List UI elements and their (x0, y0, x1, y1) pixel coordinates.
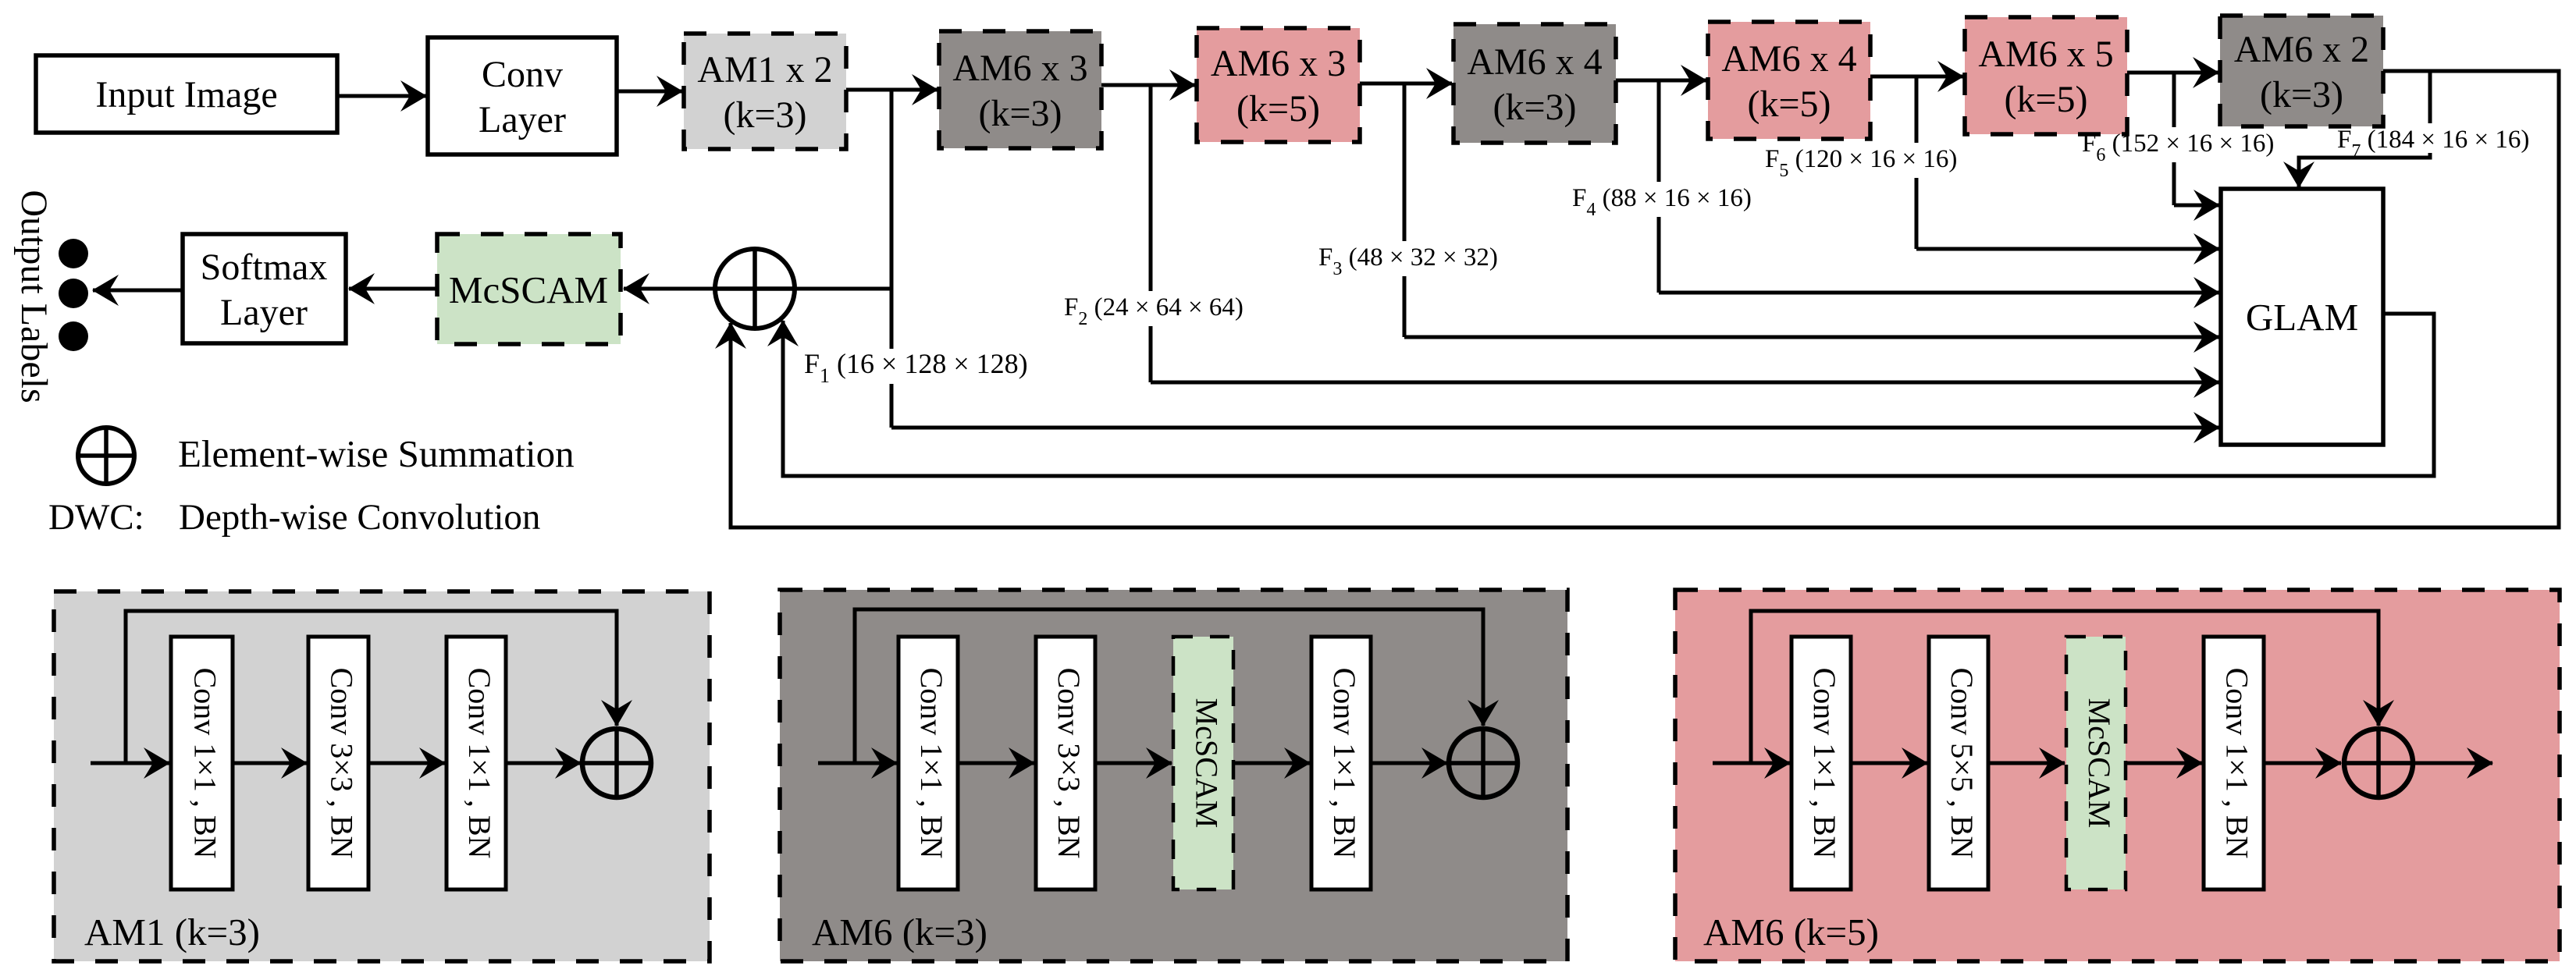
svg-text:Input Image: Input Image (95, 74, 277, 115)
wire AM1 conv1 to conv2 (233, 762, 307, 765)
wire AM6x5(k=5) to AM6x2(k=3) with F6 tap (2127, 71, 2218, 75)
wire AM6k5 conv2 to McSCAM (1988, 762, 2065, 765)
box AM6k5 Conv 5x5 BN (1929, 637, 1988, 889)
box AM1 Conv 1x1 BN first (171, 637, 233, 889)
wire AM6x3(k=5) to AM6x4(k=3) with F3 tap (1360, 82, 1452, 86)
svg-text:AM6 (k=5): AM6 (k=5) (1703, 911, 1879, 953)
sub-diagram AM1 (k=3) outer box (54, 591, 710, 961)
label F4 background (1647, 182, 1673, 217)
node summation circle (715, 249, 795, 328)
wire F3 vertical tap (1403, 83, 1407, 337)
wire F5 horizontal to GLAM (1916, 247, 2219, 251)
wire AM6k3 conv3 to summation (1371, 762, 1447, 765)
box GLAM (2221, 189, 2383, 445)
wire AM6k5 output (2413, 762, 2492, 765)
node AM6k3 summation circle (1449, 729, 1517, 797)
svg-text:AM1 x 2: AM1 x 2 (697, 49, 832, 91)
wire AM6x3(k=3) to AM6x3(k=5) with F2 tap (1101, 83, 1195, 87)
svg-text:Conv 3×3 , BN: Conv 3×3 , BN (1051, 668, 1087, 859)
svg-text:(k=5): (k=5) (1236, 88, 1320, 130)
wire Softmax to output dots (93, 289, 183, 293)
node AM6k5 summation circle (2344, 729, 2413, 797)
wire AM6k5 McSCAM to conv3 (2126, 762, 2202, 765)
wire AM1 conv3 to summation (506, 762, 581, 765)
box AM6k3 McSCAM (1173, 637, 1233, 889)
svg-text:Conv: Conv (482, 54, 563, 95)
svg-text:AM6 x 4: AM6 x 4 (1467, 41, 1602, 83)
wire AM6x4(k=3) to AM6x4(k=5) with F4 tap (1616, 79, 1706, 83)
svg-text:AM6 (k=3): AM6 (k=3) (812, 911, 987, 953)
box AM6 x 4 (k=5) (1708, 22, 1870, 139)
wire F5 vertical tap (1915, 76, 1919, 249)
wire AM6k5 input (1713, 762, 1790, 765)
svg-text:Conv 1×1 , BN: Conv 1×1 , BN (1807, 668, 1842, 859)
box AM6 x 5 (k=5) (1965, 17, 2127, 134)
wire AM6k3 input (818, 762, 897, 765)
wire AM6k3 McSCAM to conv3 (1233, 762, 1310, 765)
wire AM6k5 skip connection (1751, 611, 2379, 763)
node output dot 2 (59, 279, 88, 308)
wire AM6k3 skip connection (855, 609, 1483, 763)
label F5 background (1905, 143, 1930, 178)
svg-text:Conv 3×3 , BN: Conv 3×3 , BN (324, 668, 359, 859)
svg-text:McSCAM: McSCAM (2082, 698, 2117, 829)
wire F3 horizontal to GLAM (1404, 336, 2219, 339)
svg-text:AM1 (k=3): AM1 (k=3) (84, 911, 260, 953)
sub-diagram AM6 (k=5) outer box (1675, 590, 2560, 961)
wire AM1 skip connection (126, 611, 617, 763)
legend summation symbol (78, 428, 134, 484)
wire AM6x2 output feedback to summation (bottom-left arrow) (731, 71, 2559, 527)
label F3 background (1393, 241, 1418, 276)
wire F2 horizontal to GLAM (1151, 381, 2219, 385)
svg-text:AM6 x 4: AM6 x 4 (1721, 38, 1856, 80)
svg-text:AM6 x 3: AM6 x 3 (952, 48, 1087, 89)
svg-text:(k=3): (k=3) (2260, 74, 2343, 115)
box AM1 x 2 (k=3) (684, 34, 846, 149)
wire F1 horizontal to GLAM (891, 426, 2219, 430)
label F2 background (1139, 291, 1165, 326)
label F6 background (2162, 127, 2188, 162)
wire F7 tap down from AM6x2 output into GLAM top (2299, 71, 2430, 187)
box AM6k3 Conv 1x1 BN first (898, 637, 958, 889)
svg-text:AM6 x 5: AM6 x 5 (1978, 34, 2113, 75)
box McSCAM (437, 234, 621, 344)
box AM6k3 Conv 3x3 BN (1036, 637, 1095, 889)
box AM6k5 McSCAM (2066, 637, 2126, 889)
wire AM1 conv2 to conv3 (368, 762, 445, 765)
label F7 background (2418, 123, 2444, 153)
svg-text:(k=3): (k=3) (978, 93, 1062, 134)
wire AM6k5 conv1 to conv2 (1851, 762, 1927, 765)
box AM6k5 Conv 1x1 BN second (2204, 637, 2264, 889)
svg-text:Conv 1×1 , BN: Conv 1×1 , BN (187, 668, 222, 859)
box AM6 x 4 (k=3) (1453, 24, 1616, 143)
box Input Image (36, 55, 337, 133)
label F1 background (880, 349, 906, 384)
svg-text:Layer: Layer (479, 99, 566, 140)
node output dot 3 (59, 321, 88, 351)
box AM1 Conv 1x1 BN second (447, 637, 506, 889)
svg-text:AM6 x 3: AM6 x 3 (1211, 43, 1346, 84)
box Softmax Layer (183, 234, 346, 343)
sub-diagram AM6 (k=3) outer box (780, 590, 1567, 961)
node AM1 summation circle (582, 729, 651, 797)
wire McSCAM to Softmax (349, 287, 437, 291)
svg-text:Conv 1×1 , BN: Conv 1×1 , BN (914, 668, 949, 859)
svg-text:Conv 1×1 , BN: Conv 1×1 , BN (2219, 668, 2254, 859)
svg-text:McSCAM: McSCAM (449, 268, 608, 311)
box AM6k5 Conv 1x1 BN first (1791, 637, 1851, 889)
wire F6 horizontal to GLAM (2174, 204, 2219, 208)
wire Input Image to Conv Layer (337, 94, 426, 98)
svg-text:McSCAM: McSCAM (1189, 698, 1224, 829)
svg-text:Conv 1×1 , BN: Conv 1×1 , BN (1327, 668, 1362, 859)
wire F1 vertical tap (890, 90, 894, 428)
wire AM6k5 conv3 to summation (2264, 762, 2341, 765)
wire AM6x4(k=5) to AM6x5(k=5) with F5 tap (1870, 75, 1963, 79)
svg-text:(k=3): (k=3) (723, 94, 806, 136)
box AM6 x 2 (k=3) (2220, 16, 2383, 126)
svg-text:GLAM: GLAM (2246, 296, 2358, 339)
svg-text:(k=5): (k=5) (1747, 83, 1831, 125)
svg-text:Depth-wise Convolution: Depth-wise Convolution (179, 497, 540, 538)
wire AM6k3 conv1 to conv2 (958, 762, 1034, 765)
wire F4 horizontal to GLAM (1659, 291, 2219, 295)
svg-text:(k=5): (k=5) (2004, 79, 2087, 120)
wire AM6k3 conv2 to McSCAM (1095, 762, 1172, 765)
svg-text:(k=3): (k=3) (1493, 87, 1576, 128)
box AM6 x 3 (k=3) (939, 31, 1101, 148)
box AM6k3 Conv 1x1 BN second (1311, 637, 1371, 889)
wire Conv Layer to AM1 (617, 90, 682, 94)
node output dot 1 (59, 239, 88, 268)
svg-text:Element-wise Summation: Element-wise Summation (178, 432, 575, 475)
svg-text:Layer: Layer (220, 292, 308, 333)
svg-text:Conv 1×1 , BN: Conv 1×1 , BN (462, 668, 497, 859)
wire F4 vertical tap (1657, 80, 1661, 293)
svg-text:Output Labels: Output Labels (13, 190, 55, 403)
wire F1 branch into summation right side (796, 287, 891, 291)
wire F6 vertical tap (2172, 73, 2176, 205)
box AM6 x 3 (k=5) (1197, 28, 1360, 142)
wire AM1 input (91, 762, 169, 765)
box AM1 Conv 3x3 BN (308, 637, 368, 889)
wire GLAM output feedback to summation (bottom-right arrow) (783, 314, 2434, 476)
wire AM1 to AM6x3(k=3) with F1 tap (846, 88, 938, 92)
wire F2 vertical tap (1149, 85, 1153, 382)
svg-text:DWC:: DWC: (48, 497, 144, 538)
wire summation to McSCAM (624, 287, 715, 291)
svg-text:Softmax: Softmax (201, 247, 328, 288)
svg-text:Conv 5×5 , BN: Conv 5×5 , BN (1944, 668, 1980, 859)
svg-text:AM6 x 2: AM6 x 2 (2234, 29, 2369, 70)
box Conv Layer (428, 37, 617, 154)
